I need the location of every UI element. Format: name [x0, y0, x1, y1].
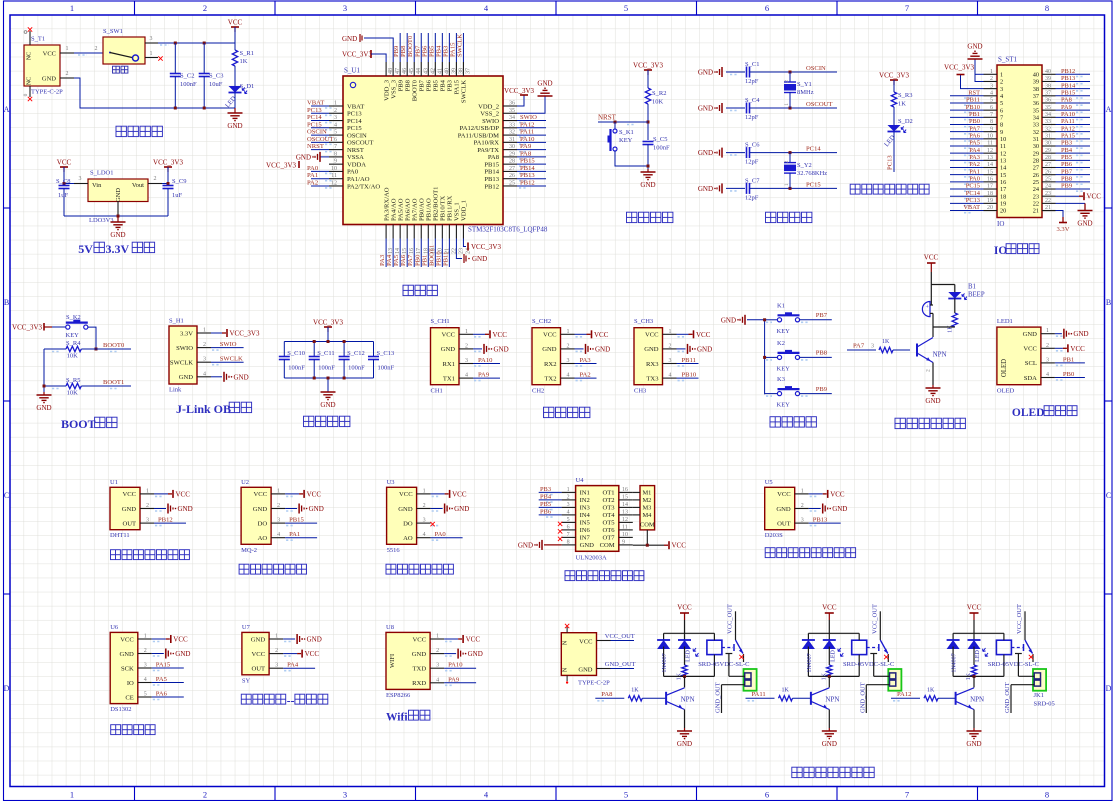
svg-text:3.3V: 3.3V: [1056, 226, 1069, 233]
wire COM to VCC: [633, 530, 686, 550]
svg-text:8: 8: [1045, 790, 1049, 800]
svg-text:2: 2: [275, 648, 278, 654]
svg-text:PA15: PA15: [156, 662, 171, 669]
svg-text:GND: GND: [42, 76, 56, 83]
svg-text:PB13: PB13: [813, 517, 828, 524]
svg-text:SWCLK: SWCLK: [170, 360, 193, 367]
svg-text:PA12: PA12: [520, 121, 534, 128]
svg-text:PA5/AO: PA5/AO: [397, 198, 404, 221]
svg-text:PB1: PB1: [1063, 356, 1074, 363]
svg-text:3: 3: [150, 36, 153, 42]
svg-text:C: C: [1106, 491, 1111, 500]
ST1 left pin 3: [984, 83, 1004, 93]
svg-text:VCC_3V3: VCC_3V3: [471, 243, 501, 251]
U1 top pin 45 PB8: [400, 33, 415, 91]
svg-text:20: 20: [987, 205, 993, 211]
svg-text:S_U1: S_U1: [344, 67, 360, 75]
svg-text:PB14: PB14: [520, 165, 535, 172]
svg-text:CH1: CH1: [431, 388, 443, 395]
svg-text:WIFI: WIFI: [389, 654, 396, 668]
module U5 D203S body: [765, 479, 795, 539]
U4 left pin 1 IN1: [539, 486, 590, 497]
power VCC alarm: [924, 254, 939, 273]
svg-text:PB12: PB12: [1061, 68, 1075, 75]
svg-text:28: 28: [1045, 155, 1051, 161]
CH1 pin 3 RX1: [443, 357, 500, 368]
net OSCIN wire: [768, 65, 837, 72]
svg-text:SRD-05VDC-SL-C: SRD-05VDC-SL-C: [698, 661, 749, 668]
svg-text:PB3: PB3: [447, 79, 454, 91]
U1 top pin 42 PB6: [421, 33, 436, 91]
crystal Y2 32.768KHz: [784, 153, 827, 189]
svg-text:S_C12: S_C12: [347, 350, 365, 357]
svg-text:U5: U5: [765, 479, 773, 486]
title stepper motor: [565, 571, 644, 581]
H1 pin 4 GND: [179, 371, 211, 381]
svg-text:PB1: PB1: [969, 111, 980, 118]
title program run indicator: [850, 184, 929, 194]
svg-text:VBAT: VBAT: [347, 103, 364, 110]
svg-text:PA6: PA6: [400, 254, 407, 266]
title alarm circuit: [895, 418, 965, 428]
svg-text:PA7: PA7: [853, 343, 865, 350]
svg-text:36: 36: [1045, 98, 1051, 104]
svg-text:PB3: PB3: [1061, 140, 1072, 147]
wire vcc to relay rail: [828, 620, 830, 633]
svg-text:11: 11: [331, 173, 337, 179]
svg-text:J-Link OB: J-Link OB: [176, 402, 231, 416]
motor pin M3: [633, 505, 652, 512]
ST1 left pin 12: [950, 147, 1006, 158]
svg-text:PA12/USB/DP: PA12/USB/DP: [460, 125, 500, 132]
net BOOT0 wire: [52, 342, 131, 352]
svg-text:VCC: VCC: [466, 636, 481, 644]
svg-text:S_CH3: S_CH3: [634, 318, 653, 325]
ST1 left pin 20: [950, 204, 1006, 215]
svg-text:PB12: PB12: [520, 179, 535, 186]
svg-text:3: 3: [1046, 357, 1049, 363]
svg-text:24: 24: [1033, 186, 1040, 193]
svg-text:U1: U1: [110, 479, 118, 486]
terminal block green: [744, 669, 757, 691]
ST1 right pin 21: [1033, 205, 1056, 215]
svg-text:VBAT: VBAT: [963, 204, 980, 211]
svg-text:U4: U4: [576, 477, 585, 484]
junction filter gnd: [327, 377, 330, 380]
svg-text:VCC_3V3: VCC_3V3: [266, 162, 296, 170]
svg-text:3: 3: [990, 83, 993, 89]
CH2 pin 2 GND: [542, 343, 610, 354]
svg-text:PC14: PC14: [966, 190, 981, 197]
power VCC_3V3 at H1: [211, 329, 260, 338]
svg-text:37: 37: [1045, 91, 1051, 97]
svg-text:PB2/BOOT1: PB2/BOOT1: [433, 187, 440, 221]
svg-text:1: 1: [567, 487, 570, 493]
svg-text:PA10/RX: PA10/RX: [474, 140, 500, 147]
svg-text:GND: GND: [537, 80, 552, 88]
svg-text:S_R1: S_R1: [240, 50, 254, 57]
CH2 pin 3 RX2: [544, 357, 596, 368]
svg-text:VCC: VCC: [579, 639, 592, 646]
svg-text:OT7: OT7: [603, 535, 616, 542]
U1 bottom pin 17 PA7/AO: [407, 198, 422, 267]
CH2 pin 1 VCC: [543, 329, 609, 339]
svg-text:S_C5: S_C5: [653, 136, 667, 143]
svg-text:2: 2: [990, 76, 993, 82]
svg-text:PA4: PA4: [287, 662, 299, 669]
svg-text:16: 16: [987, 177, 993, 183]
title serial circuit: [544, 407, 590, 417]
svg-text:VCC: VCC: [305, 650, 320, 658]
power VCC_3V3 reset: [633, 62, 663, 76]
svg-text:12pF: 12pF: [745, 159, 759, 166]
relay coil SRD-05VDC-SL-C: [988, 633, 1039, 676]
ST1 right pin 39: [1033, 75, 1090, 86]
ST1 left pin 9: [950, 125, 1003, 136]
svg-text:16: 16: [622, 487, 628, 493]
net PA12 base wire: [891, 688, 956, 702]
junction crystal Y1 top: [789, 71, 792, 74]
svg-text:PC13: PC13: [307, 107, 322, 114]
svg-text:5: 5: [144, 692, 147, 698]
svg-text:OT5: OT5: [603, 520, 616, 527]
svg-text:25: 25: [509, 180, 515, 186]
svg-text:KEY: KEY: [66, 332, 80, 339]
svg-text:S_K2: S_K2: [66, 314, 81, 321]
svg-text:PA9: PA9: [448, 676, 460, 683]
resistor R1 1K: [232, 50, 254, 66]
svg-text:1: 1: [436, 634, 439, 640]
svg-text:VDD_1: VDD_1: [461, 200, 468, 221]
svg-text:S_CH1: S_CH1: [431, 318, 450, 325]
svg-text:5: 5: [334, 130, 337, 136]
svg-text:VCC: VCC: [452, 490, 467, 498]
U7 pin 1 GND: [251, 634, 322, 645]
net GND_OUT wire: [597, 661, 636, 669]
svg-text:K1: K1: [777, 302, 785, 309]
svg-text:JK1: JK1: [1034, 692, 1044, 699]
svg-text:S_LDO1: S_LDO1: [90, 170, 113, 177]
svg-text:PB8: PB8: [404, 79, 411, 91]
wire U1 VSS_2 to GND: [517, 96, 545, 113]
svg-text:AO: AO: [258, 535, 268, 542]
svg-text:100nF: 100nF: [378, 365, 395, 372]
net BOOT1 wire: [52, 379, 131, 389]
filter top rail: [284, 341, 373, 343]
wires to terminal: [859, 654, 889, 714]
power VCC relay PA12: [967, 604, 982, 621]
module U8 ESP8266 body: [386, 624, 430, 699]
svg-text:PA11: PA11: [1061, 118, 1075, 125]
svg-text:12pF: 12pF: [745, 114, 759, 121]
wire U1 VDD_2 to VCC_3V3: [517, 95, 524, 106]
svg-text:GND: GND: [518, 541, 533, 549]
svg-text:31: 31: [1045, 134, 1051, 140]
junction key top: [614, 121, 617, 124]
svg-text:GND: GND: [253, 506, 268, 513]
ST1 right pin 22: [1033, 198, 1056, 208]
junction VCC C8: [63, 182, 66, 185]
svg-text:VCC: VCC: [493, 331, 508, 339]
svg-text:OLED: OLED: [997, 388, 1015, 395]
motor pin M4: [633, 512, 652, 519]
U7 pin 3 OUT: [252, 662, 316, 673]
svg-text:SWCLK: SWCLK: [461, 80, 468, 103]
svg-text:5: 5: [990, 98, 993, 104]
svg-text:OSCIN: OSCIN: [806, 65, 826, 72]
transistor NPN relay: [956, 676, 985, 709]
svg-text:3: 3: [567, 502, 570, 508]
svg-text:5: 5: [567, 517, 570, 523]
svg-text:24: 24: [1045, 184, 1051, 190]
svg-text:VCC: VCC: [677, 604, 692, 612]
svg-text:COM: COM: [640, 522, 655, 529]
svg-text:PA9: PA9: [520, 143, 532, 150]
ST1 left pin 17: [950, 183, 1006, 194]
svg-text:S_C10: S_C10: [287, 350, 305, 357]
svg-text:U6: U6: [110, 624, 119, 631]
net VCC_OUT wire: [597, 633, 635, 641]
svg-text:GND: GND: [251, 636, 266, 643]
svg-text:C: C: [4, 491, 9, 500]
title key circuit: [770, 417, 816, 427]
capacitor C4 12pF: [698, 97, 768, 121]
svg-text:IN2: IN2: [580, 497, 590, 504]
svg-text:14: 14: [622, 502, 628, 508]
svg-text:39: 39: [1045, 76, 1051, 82]
svg-text:10: 10: [622, 532, 628, 538]
svg-text:TX1: TX1: [443, 375, 455, 382]
svg-text:PB9: PB9: [397, 79, 404, 91]
svg-text:3: 3: [334, 115, 337, 121]
capacitor C11 100nF: [309, 342, 336, 379]
svg-text:PB13: PB13: [520, 172, 535, 179]
svg-text:PB9: PB9: [1061, 183, 1072, 190]
title main chip: [403, 285, 437, 295]
svg-text:100nF: 100nF: [348, 365, 365, 372]
title light detect module: [386, 564, 453, 574]
junction crystal Y2 top: [789, 151, 792, 154]
svg-text:1: 1: [277, 488, 280, 494]
svg-text:VCC: VCC: [1023, 346, 1037, 353]
ST1 right pin 27: [1033, 161, 1090, 172]
CH1 pin 4 TX1: [443, 372, 500, 383]
svg-text:7: 7: [1000, 115, 1003, 122]
svg-text:PA8: PA8: [520, 150, 532, 157]
ST1 right pin 25: [1033, 176, 1090, 187]
ST1 right pin 33: [1033, 118, 1090, 129]
svg-text:B: B: [4, 298, 9, 307]
ground GND at U1 right top: [537, 80, 552, 97]
net PC13 vertical wire: [887, 132, 895, 173]
resistor R2 10K: [645, 88, 666, 106]
capacitor C1 12pF: [698, 61, 768, 85]
U1 left pin 11 PA1/AO: [307, 172, 370, 183]
svg-text:1uF: 1uF: [172, 192, 183, 199]
svg-text:VCC: VCC: [413, 636, 427, 643]
svg-text:2: 2: [144, 648, 147, 654]
svg-text:4: 4: [144, 677, 147, 683]
svg-text:GND: GND: [832, 505, 847, 513]
svg-text:GND: GND: [698, 105, 713, 113]
svg-text:VCC: VCC: [967, 604, 982, 612]
svg-text:PC13: PC13: [966, 197, 980, 204]
svg-text:PA15: PA15: [449, 42, 456, 57]
svg-text:TYPE-C-2P: TYPE-C-2P: [578, 680, 610, 687]
svg-text:PB11: PB11: [442, 252, 449, 266]
power VCC_3V3 boot: [12, 323, 52, 332]
svg-text:2: 2: [66, 71, 69, 77]
net SWIO wire: [211, 341, 244, 350]
svg-text:12pF: 12pF: [745, 78, 759, 85]
svg-text:OUT: OUT: [252, 666, 266, 673]
svg-text:A: A: [1106, 105, 1112, 114]
svg-text:RXD: RXD: [412, 680, 426, 687]
svg-text:PA9: PA9: [478, 372, 490, 379]
svg-text:COM: COM: [600, 542, 615, 549]
svg-text:VCC_OUT: VCC_OUT: [727, 604, 734, 634]
svg-text:GND: GND: [967, 43, 982, 51]
svg-text:M3: M3: [643, 505, 652, 512]
svg-text:PA12: PA12: [1061, 125, 1075, 132]
svg-text:1: 1: [275, 634, 278, 640]
svg-text:CH2: CH2: [532, 388, 544, 395]
svg-text:PB6: PB6: [1061, 161, 1072, 168]
junction crystal Y1 bottom: [789, 107, 792, 110]
net SWCLK wire: [211, 356, 244, 365]
net OSCOUT wire: [768, 101, 837, 108]
svg-text:S_SW1: S_SW1: [103, 28, 123, 35]
U1 bottom pin 14 PA4/AO: [386, 198, 401, 267]
title filter circuit: [304, 416, 350, 426]
svg-text:3: 3: [277, 518, 280, 524]
svg-text:RX3: RX3: [646, 361, 659, 368]
svg-text:PA1: PA1: [969, 168, 980, 175]
svg-text:12: 12: [987, 148, 993, 154]
svg-text:10K: 10K: [652, 99, 664, 106]
svg-text:PB6: PB6: [540, 508, 551, 515]
svg-text:PB15: PB15: [289, 517, 304, 524]
svg-text:PB1/AO: PB1/AO: [425, 198, 432, 221]
svg-text:PB13: PB13: [1061, 75, 1075, 82]
svg-text:GND: GND: [296, 153, 311, 161]
svg-text:VCC: VCC: [777, 491, 791, 498]
svg-text:2: 2: [465, 343, 468, 349]
svg-text:6: 6: [765, 790, 769, 800]
svg-text:37: 37: [1033, 93, 1039, 100]
svg-text:OSCOUT: OSCOUT: [806, 101, 832, 108]
svg-text:PA5: PA5: [156, 676, 168, 683]
svg-text:SY: SY: [242, 677, 251, 684]
svg-text:GND: GND: [1077, 220, 1092, 228]
U1 top pin 40 PB4: [435, 33, 450, 91]
svg-text:S_ST1: S_ST1: [998, 56, 1018, 64]
capacitor C12 100nF: [339, 342, 366, 379]
svg-text:VCC: VCC: [822, 604, 837, 612]
svg-text:PA10: PA10: [448, 662, 463, 669]
connector ST1 IO expansion body: [997, 56, 1042, 229]
svg-text:NPN: NPN: [681, 696, 695, 704]
svg-text:1: 1: [150, 51, 153, 57]
svg-text:U8: U8: [386, 624, 394, 631]
terminal block green: [888, 669, 901, 691]
svg-text:100nF: 100nF: [318, 365, 335, 372]
wire R3 to D2: [893, 107, 895, 125]
svg-text:PB10/TX: PB10/TX: [440, 195, 447, 221]
svg-text:OLED: OLED: [1012, 407, 1045, 419]
svg-text:S_T1: S_T1: [31, 36, 45, 43]
svg-text:13: 13: [1000, 158, 1006, 165]
relay top rail: [953, 632, 1004, 634]
svg-text:S_C4: S_C4: [745, 97, 760, 104]
U8 pin 2 GND: [412, 648, 483, 659]
svg-text:PA3: PA3: [969, 154, 980, 161]
svg-text:4: 4: [423, 532, 426, 538]
svg-text:IN4: IN4: [580, 512, 591, 519]
U1 top pin 47 VSS_3: [390, 62, 401, 99]
U1 bottom pin 24 VDD_1: [461, 200, 472, 254]
buzzer B1 BEEP: [922, 284, 984, 328]
svg-text:GND: GND: [178, 505, 193, 513]
svg-text:18: 18: [1000, 193, 1006, 200]
svg-text:S_C13: S_C13: [377, 350, 395, 357]
svg-text:PA0: PA0: [307, 165, 319, 172]
svg-text:NC: NC: [27, 52, 33, 60]
svg-text:IN5: IN5: [580, 520, 591, 527]
svg-text:1: 1: [66, 46, 69, 52]
U8 pin 4 RXD: [412, 676, 476, 687]
svg-text:8MHz: 8MHz: [797, 89, 814, 96]
svg-text:K2: K2: [777, 340, 785, 347]
U1 left pin 2 PC13: [307, 107, 362, 118]
ST1 left pin 1: [984, 69, 1004, 79]
svg-text:S_R3: S_R3: [898, 92, 912, 99]
svg-text:VCC_3V3: VCC_3V3: [230, 330, 260, 338]
svg-text:VCC_3V3: VCC_3V3: [944, 64, 974, 72]
svg-text:PC15: PC15: [307, 121, 322, 128]
svg-text:1: 1: [465, 329, 468, 335]
wire R1 to D1: [234, 66, 236, 86]
svg-text:29: 29: [509, 151, 515, 157]
svg-text:NPN: NPN: [825, 696, 839, 704]
U1 pin 3 OUT: [122, 517, 186, 528]
svg-text:12: 12: [622, 517, 628, 523]
transistor NPN alarm: [917, 327, 947, 363]
U1 top pin 37 SWCLK: [456, 33, 471, 103]
svg-text:GND: GND: [698, 69, 713, 77]
power VCC_3V3 filter: [313, 319, 343, 333]
ST1 right pin 37: [1033, 90, 1090, 101]
svg-text:3: 3: [801, 518, 804, 524]
emitter wire to gnd: [926, 363, 934, 386]
title J-Link OB port: [176, 402, 252, 416]
wire to R2: [647, 70, 649, 88]
svg-text:2: 2: [146, 503, 149, 509]
svg-text:VCC: VCC: [307, 490, 322, 498]
U8 pin 1 VCC: [413, 634, 481, 644]
ST1 right pin 35: [1033, 104, 1090, 115]
svg-text:PB11: PB11: [682, 357, 696, 364]
ST1 left pin 14: [950, 161, 1007, 172]
connector H1 J-Link body: [169, 318, 197, 394]
title OLED display: [1012, 406, 1077, 419]
svg-text:PB10: PB10: [435, 251, 442, 266]
wire to K2: [52, 326, 66, 328]
svg-text:1N4007: 1N4007: [807, 653, 813, 672]
svg-text:33: 33: [509, 122, 515, 128]
svg-text:7: 7: [905, 790, 909, 800]
no-connect N1 top: [565, 624, 569, 628]
